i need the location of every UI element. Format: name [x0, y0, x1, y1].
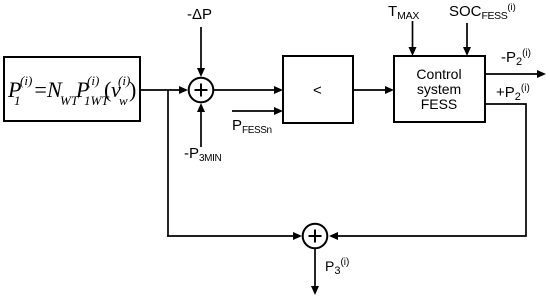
wire +P2 output right and down [329, 104, 526, 240]
arrow SOCFESS into FESS box [463, 23, 471, 56]
arrow P3 output down [311, 249, 319, 296]
label -P3MIN [184, 145, 221, 164]
svg-text:FESS: FESS [421, 96, 458, 112]
label -dP [187, 6, 212, 23]
svg-text:-P3MIN: -P3MIN [184, 145, 221, 164]
svg-text:PFESSn: PFESSn [232, 117, 272, 136]
svg-text:): ) [129, 77, 136, 102]
svg-text:+P2(i): +P2(i) [496, 83, 530, 103]
wire comparator to FESS box [353, 86, 394, 94]
svg-text:SOCFESS(i): SOCFESS(i) [449, 2, 516, 22]
label Control system FESS [416, 66, 461, 112]
svg-text:-P2(i): -P2(i) [501, 48, 531, 68]
svg-text:system: system [417, 81, 461, 97]
label -P2(i) [501, 48, 531, 68]
label < [313, 82, 322, 99]
svg-text:TMAX: TMAX [388, 3, 419, 22]
label SOCFESS(i) [449, 2, 516, 22]
arrow -dP into S1 [197, 27, 205, 77]
formula P1 = NWT P1WT (vw) [7, 73, 136, 108]
label PFESSn [232, 117, 272, 136]
label +P2(i) [496, 83, 530, 103]
arrow -P3MIN into S1 [197, 103, 205, 147]
svg-text:1: 1 [14, 93, 21, 108]
svg-text:(i): (i) [20, 73, 32, 88]
arrow TMAX into FESS box [409, 21, 417, 56]
block P1 formula box [4, 57, 140, 121]
svg-text:=: = [33, 77, 48, 102]
svg-text:w: w [119, 93, 128, 108]
svg-text:P3(i): P3(i) [325, 257, 349, 277]
comparator box [283, 56, 353, 123]
summing junction S1 [189, 78, 214, 103]
control system FESS box [394, 56, 485, 122]
summing junction S2 [303, 224, 328, 249]
arrow PFESSn into comparator box [232, 107, 283, 115]
wire S1 to comparator box [214, 86, 284, 94]
wire feedback bottom horizontal to summing junction S2 [167, 232, 302, 240]
label TMAX [388, 3, 419, 22]
arrow output -P2 [485, 70, 546, 78]
svg-text:(i): (i) [87, 73, 99, 88]
wire box1 to summing junction S1 [140, 86, 188, 94]
svg-text:Control: Control [416, 66, 461, 82]
label P3(i) [325, 257, 349, 277]
wire feedback branch down from node [167, 90, 169, 236]
svg-text:-ΔP: -ΔP [187, 6, 212, 23]
svg-text:<: < [313, 82, 322, 99]
